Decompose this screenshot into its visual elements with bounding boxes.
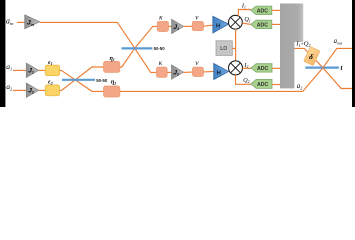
svg-text:κ: κ xyxy=(159,59,163,67)
wire eta2 to BS3 xyxy=(303,68,323,92)
mixer M2 xyxy=(229,61,243,75)
processing block FPGA xyxy=(280,4,303,89)
wire eta1 to BS1 xyxy=(120,48,135,67)
wire Q1 xyxy=(242,23,251,24)
phase shifter delta xyxy=(304,47,320,66)
wire I1 xyxy=(238,10,250,17)
local oscillator LO xyxy=(216,41,232,56)
amplifier J2 input a1 xyxy=(26,63,38,77)
beam splitter BS2 50-50 xyxy=(62,79,95,81)
wire J4 to nu2 xyxy=(183,71,192,73)
wire c1 to eta2 xyxy=(60,70,104,91)
amplifier J_in xyxy=(25,15,40,29)
svg-text:H: H xyxy=(217,71,221,77)
wire block to BS3 xyxy=(294,48,323,67)
ADC3 xyxy=(251,64,272,72)
wire I2 xyxy=(243,67,252,69)
amplifier J1 xyxy=(172,19,184,33)
wire BS1 to chain1 xyxy=(135,26,158,48)
svg-text:LO: LO xyxy=(220,46,227,52)
svg-text:50-50: 50-50 xyxy=(96,78,108,83)
svg-text:ADC: ADC xyxy=(257,9,268,15)
ADC2 xyxy=(251,20,272,28)
wire nu2 to H2 xyxy=(204,70,214,73)
beam splitter BS3 xyxy=(305,66,339,68)
loss box eta1 xyxy=(104,61,120,72)
wire LO stub xyxy=(232,47,235,49)
ADC4 xyxy=(251,79,272,88)
svg-text:I1+Q2: I1+Q2 xyxy=(295,41,310,48)
wire ADC1 to block xyxy=(272,9,280,11)
wire a_in to BS1 xyxy=(40,22,135,48)
ADC1 xyxy=(251,6,272,15)
amplifier H2 xyxy=(214,63,229,79)
wire nu1 to H1 xyxy=(204,25,213,26)
svg-text:50-50: 50-50 xyxy=(154,46,166,51)
mixer M1 xyxy=(229,15,243,29)
wire a_in stub xyxy=(17,21,25,23)
attenuator kappa1 xyxy=(157,21,168,31)
drive box c2 xyxy=(45,85,59,96)
attenuator nu1 xyxy=(192,21,203,30)
amplifier J4 chain2 xyxy=(172,65,184,79)
amplifier J3 input a2 xyxy=(26,83,38,97)
attenuator kappa2 xyxy=(156,67,167,77)
wire ADC4 to block xyxy=(272,84,280,86)
wire ADC3 to block xyxy=(272,67,280,69)
wire to c2 xyxy=(39,89,46,91)
wire kappa1 to J1 xyxy=(169,25,172,27)
wire BS1 to chain2 xyxy=(135,48,157,72)
wire a_2 stub xyxy=(13,89,26,91)
wire ADC2 to block xyxy=(272,23,280,25)
wire kappa2 to J2 xyxy=(167,71,171,73)
attenuator nu2 xyxy=(192,67,203,76)
wire a_1 stub xyxy=(13,69,26,71)
wire J1 to nu1 xyxy=(184,25,193,27)
loss box eta2 xyxy=(104,86,120,97)
drive box c1 xyxy=(45,65,59,76)
wire c2 to eta1 xyxy=(60,67,104,90)
svg-text:ADC: ADC xyxy=(257,66,268,72)
wire to c1 xyxy=(39,69,46,71)
amplifier H1 xyxy=(213,16,229,33)
wire BS3 lower right xyxy=(323,68,352,89)
beam splitter BS1 50-50 xyxy=(122,47,153,49)
wire BS3 to a_out xyxy=(323,48,352,67)
svg-text:κ: κ xyxy=(159,14,163,22)
svg-text:ADC: ADC xyxy=(257,23,268,29)
wire eta2 long xyxy=(120,90,303,92)
svg-text:H: H xyxy=(216,23,220,29)
svg-text:ADC: ADC xyxy=(257,82,268,88)
wire LO to mixers xyxy=(235,29,237,61)
wire Q2 xyxy=(236,75,252,84)
